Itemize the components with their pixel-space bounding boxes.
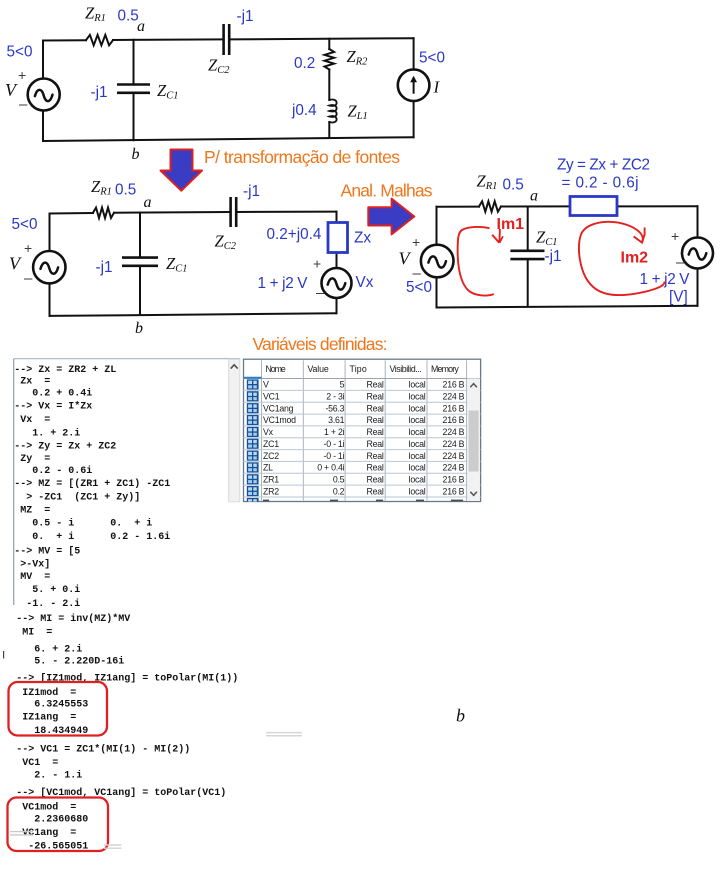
svg-text:-0 - 1i: -0 - 1i (324, 451, 345, 461)
svg-text:VC1 =: VC1 = (16, 758, 58, 769)
svg-text:MV =: MV = (14, 572, 50, 583)
svg-text:Variáveis definidas:: Variáveis definidas: (253, 334, 388, 354)
node a wire / capacitor C1 branch (circuit1) (133, 40, 135, 140)
voltage source Vx (circuit2) (322, 268, 352, 298)
svg-text:5. + 0.i: 5. + 0.i (14, 584, 80, 596)
wire: circuit2 bottom side (50, 313, 337, 316)
svg-text:IZ1mod =: IZ1mod = (16, 687, 76, 699)
svg-text:VC1: VC1 (263, 392, 280, 402)
svg-text:j0.4: j0.4 (291, 102, 317, 119)
console left border (13, 359, 15, 605)
svg-text:Tipo: Tipo (350, 364, 367, 374)
table partial bottom row (244, 496, 481, 498)
svg-text:local: local (409, 463, 426, 473)
svg-text:ZC1: ZC1 (263, 439, 279, 449)
svg-text:>-Vx]: >-Vx] (14, 559, 50, 571)
table header separator (244, 378, 481, 380)
gray strike artifact over VC1ang (10, 832, 33, 835)
capacitor ZC2 plates (circuit2) (231, 197, 237, 227)
svg-text:V: V (263, 380, 269, 390)
table row ZC2 (244, 449, 481, 451)
table row ZR1 (244, 472, 481, 474)
svg-text:--> Vx = I*Zx: --> Vx = I*Zx (14, 401, 92, 413)
svg-text:3.61: 3.61 (328, 415, 344, 425)
table row V (247, 379, 259, 389)
svg-text:Im1: Im1 (497, 216, 525, 233)
svg-text:+: + (412, 234, 420, 250)
svg-text:5: 5 (340, 380, 345, 390)
capacitor ZC1 plates (circuit1) (117, 85, 150, 93)
resistor ZR2 (circuit1) (325, 49, 335, 70)
svg-text:-0 - 1i: -0 - 1i (324, 439, 345, 449)
svg-text:2.2360680: 2.2360680 (16, 815, 88, 826)
svg-text:0.5: 0.5 (118, 8, 139, 25)
svg-text:Real: Real (367, 486, 384, 496)
svg-text:b: b (132, 146, 140, 163)
svg-text:--> Zy = Zx + ZC2: --> Zy = Zx + ZC2 (14, 442, 116, 453)
current source I (circuit1) (398, 69, 430, 101)
svg-text:–: – (24, 270, 33, 287)
voltage source V (circuit2) (33, 251, 65, 283)
svg-text:Anal. Malhas: Anal. Malhas (341, 181, 433, 201)
svg-text:0.2: 0.2 (294, 55, 315, 72)
svg-text:0 + 0.4i: 0 + 0.4i (317, 463, 344, 473)
svg-text:--> MV = [5: --> MV = [5 (14, 546, 80, 558)
svg-text:a: a (137, 18, 145, 35)
table scrollbar up arrow (470, 384, 477, 388)
svg-text:Vx: Vx (356, 274, 374, 291)
svg-text:Visibilid...: Visibilid... (390, 364, 422, 374)
table header blue accent (icon column) (244, 377, 262, 379)
red highlight box VC1mod/VC1ang (8, 798, 109, 852)
svg-text:-j1: -j1 (243, 183, 260, 200)
resistor ZR1 (circuit2) (93, 208, 114, 218)
wire: circuit1 left side (42, 41, 44, 142)
svg-text:5. - 2.220D-16i: 5. - 2.220D-16i (16, 656, 124, 668)
svg-text:local: local (409, 403, 426, 413)
svg-text:local: local (409, 392, 426, 402)
variable browser table background (244, 359, 481, 501)
voltage source Vx (circuit3 right) (682, 238, 713, 269)
svg-text:-1. - 2.i: -1. - 2.i (14, 598, 80, 610)
svg-text:1 + 2i: 1 + 2i (324, 427, 345, 437)
svg-text:Real: Real (367, 439, 384, 449)
svg-text:216 B: 216 B (443, 475, 465, 485)
svg-text:local: local (409, 486, 426, 496)
svg-text:216 B: 216 B (443, 415, 465, 425)
table scrollbar track (468, 379, 480, 502)
svg-text:P/ transformação de fontes: P/ transformação de fontes (204, 147, 400, 167)
resistor ZR1 (circuit3) (479, 201, 501, 211)
table row VC1ang (244, 401, 481, 403)
table row ZC1 (244, 437, 481, 439)
svg-text:-j1: -j1 (96, 259, 113, 276)
console top border (14, 358, 240, 360)
svg-text:VC1mod =: VC1mod = (16, 802, 76, 814)
svg-text:Real: Real (367, 451, 384, 461)
svg-text:0.2+j0.4: 0.2+j0.4 (267, 226, 322, 243)
svg-text:local: local (409, 415, 426, 425)
svg-text:216 B: 216 B (443, 380, 465, 390)
svg-text:Zy =: Zy = (14, 454, 50, 465)
svg-text:5<0: 5<0 (12, 216, 38, 233)
svg-text:0.5: 0.5 (115, 182, 136, 199)
svg-text:Memory: Memory (431, 364, 459, 374)
svg-text:b: b (135, 320, 143, 337)
svg-text:0.2 + 0.4i: 0.2 + 0.4i (14, 388, 92, 400)
svg-text:-j1: -j1 (545, 248, 562, 265)
svg-text:–: – (316, 285, 325, 302)
svg-text:Value: Value (308, 364, 329, 374)
svg-text:[V]: [V] (669, 289, 688, 306)
svg-text:ZC2: ZC2 (263, 451, 279, 461)
table scrollbar thumb (469, 411, 479, 472)
wire: circuit3 left side (436, 207, 438, 308)
svg-text:6. + 2.i: 6. + 2.i (16, 644, 82, 656)
svg-text:0.5: 0.5 (503, 177, 524, 194)
big right arrow (mesh analysis) (368, 199, 414, 235)
table column grid lines (262, 360, 467, 500)
svg-text:Real: Real (367, 403, 384, 413)
svg-text:Zx: Zx (354, 230, 371, 247)
svg-text:-j1: -j1 (237, 8, 254, 25)
svg-text:ZL: ZL (263, 463, 273, 473)
svg-text:local: local (409, 439, 426, 449)
table row VC1mod (244, 413, 481, 415)
wire: circuit3 bottom side (437, 306, 698, 308)
svg-text:Zy = Zx + ZC2: Zy = Zx + ZC2 (557, 157, 650, 174)
svg-text:–: – (19, 96, 28, 113)
svg-text:local: local (409, 380, 426, 390)
capacitor C1 branch wire (circuit3) (527, 207, 529, 307)
svg-text:5<0: 5<0 (419, 50, 445, 67)
svg-text:Zx =: Zx = (14, 377, 50, 388)
mesh current arrow Im1 (red, circuit3) (458, 227, 494, 296)
svg-text:a: a (530, 188, 538, 205)
mesh current arrow Im2 (red, circuit3) (579, 222, 665, 295)
voltage source V (circuit3) (421, 245, 454, 278)
table row VC1 (244, 389, 481, 391)
svg-text:224 B: 224 B (443, 463, 465, 473)
svg-text:local: local (409, 427, 426, 437)
svg-text:VC1mod: VC1mod (263, 415, 296, 425)
svg-text:Real: Real (367, 475, 384, 485)
svg-text:+: + (18, 67, 26, 83)
svg-text:Real: Real (367, 380, 384, 390)
svg-text:IZ1ang =: IZ1ang = (16, 713, 76, 724)
svg-text:224 B: 224 B (443, 427, 465, 437)
svg-text:Real: Real (367, 463, 384, 473)
svg-text:0. + i 0.2 - 1.6i: 0. + i 0.2 - 1.6i (14, 531, 170, 543)
text cursor artifact (3, 651, 5, 659)
svg-text:VC1ang: VC1ang (263, 403, 294, 413)
svg-text:--> Zx = ZR2 + ZL: --> Zx = ZR2 + ZL (14, 365, 116, 376)
capacitor ZC1 plates (circuit2) (122, 258, 158, 266)
svg-text:5<0: 5<0 (7, 44, 33, 61)
svg-text:-56.3: -56.3 (325, 403, 344, 413)
gray equals artifact near -26.565051 (104, 845, 122, 848)
svg-text:1 + j2 V: 1 + j2 V (640, 271, 691, 288)
svg-text:5<0: 5<0 (406, 279, 432, 296)
svg-text:a: a (144, 194, 152, 211)
svg-text:ZR1: ZR1 (263, 475, 279, 485)
table row ZL (244, 460, 481, 462)
impedance box Zx (circuit2) (328, 223, 348, 253)
svg-text:b: b (456, 706, 465, 726)
svg-text:216 B: 216 B (443, 403, 465, 413)
table row Vx (244, 425, 481, 427)
svg-text:224 B: 224 B (443, 392, 465, 402)
svg-text:Im2: Im2 (621, 250, 649, 267)
svg-text:MZ =: MZ = (14, 506, 50, 517)
svg-text:224 B: 224 B (443, 439, 465, 449)
svg-text:local: local (409, 451, 426, 461)
svg-text:local: local (409, 475, 426, 485)
svg-text:Real: Real (367, 415, 384, 425)
svg-text:Vx: Vx (263, 427, 274, 437)
svg-text:Vx =: Vx = (14, 415, 50, 426)
wire: circuit1 bottom side (43, 137, 414, 141)
gray equals artifact right of console (266, 733, 302, 736)
capacitor C1 branch wire (circuit2) (139, 213, 141, 316)
console scrollbar up arrow (231, 365, 238, 369)
svg-text:224 B: 224 B (443, 451, 465, 461)
resistor ZR1 (circuit1) (86, 35, 113, 45)
svg-text:0.5 - i 0. + i: 0.5 - i 0. + i (14, 518, 152, 530)
capacitor ZC1 plates (circuit3) (510, 251, 544, 259)
svg-text:2. - 1.i: 2. - 1.i (16, 770, 82, 782)
svg-text:0.2: 0.2 (333, 486, 345, 496)
wire: circuit2 top side (50, 212, 337, 214)
wire: circuit2 right branch (336, 212, 338, 314)
svg-text:--> MI = inv(MZ)*MV: --> MI = inv(MZ)*MV (16, 613, 130, 625)
svg-text:MI =: MI = (16, 628, 52, 639)
capacitor ZC2 plates (circuit1) (224, 24, 230, 55)
wire: circuit3 top side (437, 205, 698, 207)
wire: circuit1 top side (43, 38, 414, 40)
svg-text:> -ZC1 (ZC1 + Zy)]: > -ZC1 (ZC1 + Zy)] (14, 492, 140, 504)
svg-text:Real: Real (367, 427, 384, 437)
inductor ZL1 (circuit1) (329, 99, 336, 122)
svg-text:0.5: 0.5 (333, 475, 345, 485)
branch ZR2/ZL1 (circuit1) (328, 39, 330, 138)
svg-text:-j1: -j1 (91, 84, 108, 101)
svg-text:+: + (671, 228, 679, 244)
table scrollbar down arrow (470, 492, 477, 496)
big down arrow (transformation) (161, 150, 203, 191)
red highlight box IZ1mod/IZ1ang (9, 682, 108, 736)
svg-text:VC1ang =: VC1ang = (16, 828, 76, 839)
wire: circuit1 right side (413, 38, 415, 137)
svg-text:--> MZ = [(ZR1 + ZC1) -ZC1: --> MZ = [(ZR1 + ZC1) -ZC1 (14, 478, 170, 490)
svg-text:Real: Real (367, 392, 384, 402)
svg-text:1 + j2 V: 1 + j2 V (258, 275, 309, 292)
impedance box Zy (circuit3) (570, 197, 617, 216)
svg-text:2 - 3i: 2 - 3i (326, 392, 344, 402)
svg-text:ZR2: ZR2 (263, 486, 279, 496)
svg-text:216 B: 216 B (443, 486, 465, 496)
svg-text:0.2 - 0.6i: 0.2 - 0.6i (14, 465, 92, 477)
svg-text:--> VC1 = ZC1*(MI(1) - MI(2)): --> VC1 = ZC1*(MI(1) - MI(2)) (16, 744, 190, 756)
console scrollbar track (229, 359, 240, 502)
voltage source V (circuit1) (28, 79, 60, 111)
svg-text:–: – (676, 254, 685, 271)
svg-text:1. + 2.i: 1. + 2.i (14, 428, 80, 440)
svg-text:= 0.2 - 0.6j: = 0.2 - 0.6j (562, 175, 639, 192)
svg-text:Nome: Nome (266, 364, 286, 374)
svg-text:+: + (313, 256, 321, 272)
table row ZR2 (244, 484, 481, 486)
wire: circuit3 right side (697, 206, 699, 305)
wire: circuit2 left side (49, 214, 51, 316)
svg-text:+: + (24, 240, 32, 256)
svg-text:6.3245553: 6.3245553 (16, 700, 88, 711)
